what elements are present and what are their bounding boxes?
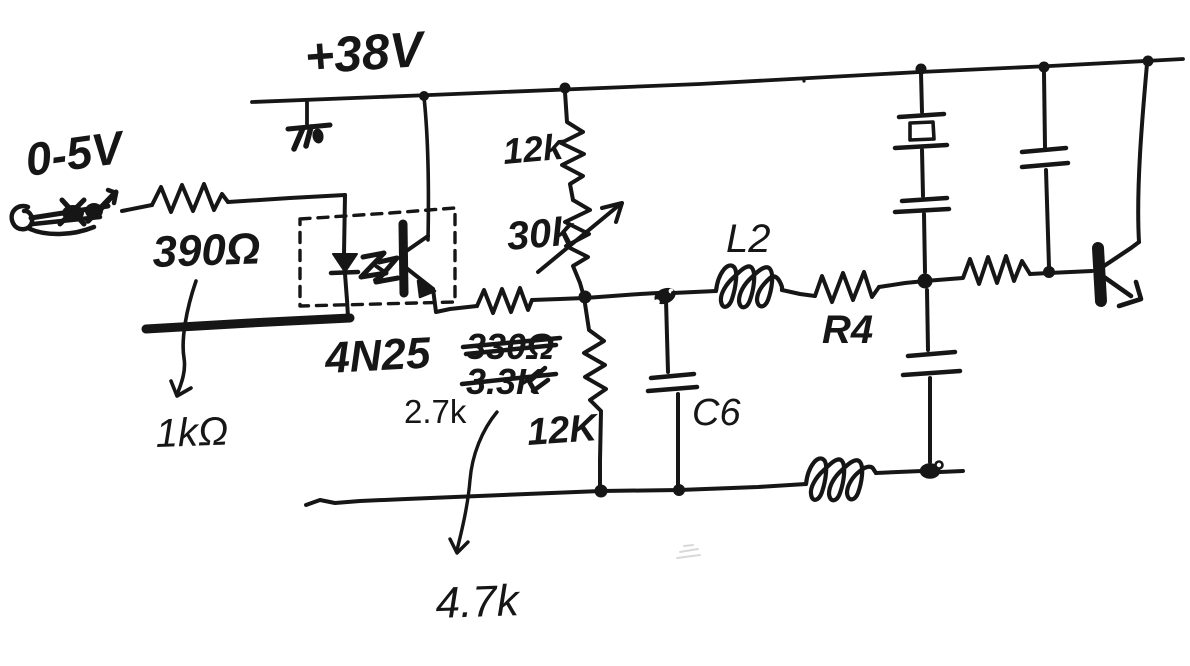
inductor on bottom rail	[806, 458, 876, 500]
12K lower value label	[526, 407, 601, 454]
transistor Q1	[1098, 242, 1141, 306]
wire: third capacitor to bottom rail	[928, 378, 932, 462]
node: rail junction to transistor collector	[1143, 56, 1154, 67]
wire: resistor to LED anode corner	[228, 195, 345, 202]
node: mid junction (30k / 12K / 2.7k)	[579, 291, 592, 304]
node: bottom rail junction C6	[673, 484, 685, 496]
wire: +38V rail down to optocoupler collector	[424, 97, 428, 240]
optocoupler phototransistor	[403, 224, 435, 297]
R4 label	[822, 308, 873, 352]
wire: second capacitor to mid junction	[924, 214, 925, 272]
svg-text:0-5V: 0-5V	[22, 120, 129, 185]
capacitor (electrolytic, top of chain)	[895, 114, 947, 148]
wire: input terminal to 390 ohm resistor	[122, 205, 152, 211]
speck on rail	[802, 79, 805, 82]
node: junction R4 / capacitor chain	[918, 274, 933, 289]
30k value label	[505, 209, 577, 259]
node: rail junction to 12k	[560, 83, 571, 94]
node: junction second capacitor / base	[1043, 266, 1055, 278]
capacitor C6 top lead	[666, 300, 668, 372]
0-5V label	[22, 120, 129, 185]
svg-text:30k: 30k	[505, 209, 577, 259]
capacitor (second in chain)	[895, 198, 949, 212]
node: open circle junction at C6	[652, 285, 678, 307]
resistor between junction and transistor base	[925, 256, 1030, 284]
node: bottom rail junction 12K	[595, 485, 608, 498]
svg-text:2.7k: 2.7k	[404, 393, 467, 430]
capacitor C6	[648, 374, 697, 391]
C6 label	[692, 392, 741, 434]
wire: base junction to transistor	[1049, 271, 1092, 273]
resistor 390 ohm (corrected to 1k)	[152, 184, 228, 212]
svg-text:+38V: +38V	[303, 21, 428, 85]
+38V label	[303, 21, 428, 85]
svg-text:390Ω: 390Ω	[152, 224, 261, 277]
wire: mid junction to C6 node	[585, 293, 658, 298]
wire: C6 node to L2	[673, 291, 716, 293]
wire: mid junction down to third capacitor	[927, 290, 928, 350]
svg-text:12K: 12K	[526, 407, 601, 454]
node: rail junction to capacitor chain	[916, 64, 927, 75]
svg-text:12k: 12k	[501, 126, 566, 172]
node: open loop junction bottom rail / capacitor chain	[876, 462, 943, 478]
tick mark on +38V rail	[288, 100, 330, 149]
resistor 2.7k (was 330 ohm / 3.3K)	[477, 288, 532, 313]
4.7k corrected value label	[435, 576, 522, 628]
1k ohm corrected value label	[155, 409, 229, 456]
svg-text:4.7k: 4.7k	[435, 576, 522, 628]
resistor R4	[815, 272, 879, 302]
bottom rail wire	[306, 484, 806, 505]
capacitor (right, above base)	[1022, 148, 1068, 167]
390 ohm value label	[152, 224, 261, 277]
wire: capacitor to base junction	[1046, 170, 1049, 267]
2.7k value label (typed)	[404, 393, 467, 430]
thick return wire from LED cathode	[146, 318, 350, 329]
optocoupler LED (diode)	[331, 254, 358, 273]
correction arrow from 2.7k area to 4.7k label	[450, 412, 497, 553]
input terminal (0-5V source)	[12, 190, 116, 234]
wire: 12K lower resistor to bottom rail	[584, 297, 606, 489]
wire: rail to second capacitor	[1044, 73, 1045, 147]
resistor 12k upper	[561, 92, 584, 200]
wire: R4 to capacitor chain junction	[879, 281, 925, 287]
12k upper value label	[501, 126, 566, 172]
wire stub right of loop junction	[940, 471, 963, 472]
wire: phototransistor emitter out of box	[433, 289, 477, 312]
node: rail junction to optocoupler collector	[419, 91, 429, 101]
inductor L2	[716, 265, 782, 307]
capacitor (third in chain)	[903, 352, 960, 375]
optocoupler U1 4N25 dashed outline	[300, 208, 455, 306]
node: rail junction to second capacitor	[1039, 62, 1050, 73]
wire: transistor collector to +38V rail	[1138, 64, 1147, 242]
svg-text:1kΩ: 1kΩ	[155, 409, 229, 456]
4N25 label	[323, 329, 432, 384]
wire: L2 to R4	[782, 290, 815, 296]
wire: 2.7k resistor to mid junction	[532, 298, 585, 300]
optocoupler light arrows	[361, 253, 398, 282]
capacitor C6 bottom lead	[676, 394, 680, 488]
+38V supply rail wire	[252, 59, 1183, 102]
svg-text:4N25: 4N25	[323, 329, 432, 384]
faint smudge	[677, 545, 700, 558]
svg-text:C6: C6	[692, 392, 741, 434]
330 ohm crossed-out label	[463, 326, 560, 367]
svg-text:R4: R4	[822, 308, 873, 352]
optocoupler LED anode lead	[344, 195, 345, 254]
optocoupler LED cathode lead	[345, 274, 348, 317]
L2 label	[726, 217, 771, 261]
svg-text:L2: L2	[726, 217, 771, 261]
potentiometer 30k	[538, 200, 622, 297]
correction arrow from 390 ohm label to 1k label	[171, 281, 196, 396]
wire: resistor to base junction	[1030, 273, 1049, 274]
wire between capacitors	[922, 150, 923, 196]
3.3K crossed-out label	[462, 361, 556, 402]
wire: rail to top electrolytic capacitor	[921, 73, 922, 112]
